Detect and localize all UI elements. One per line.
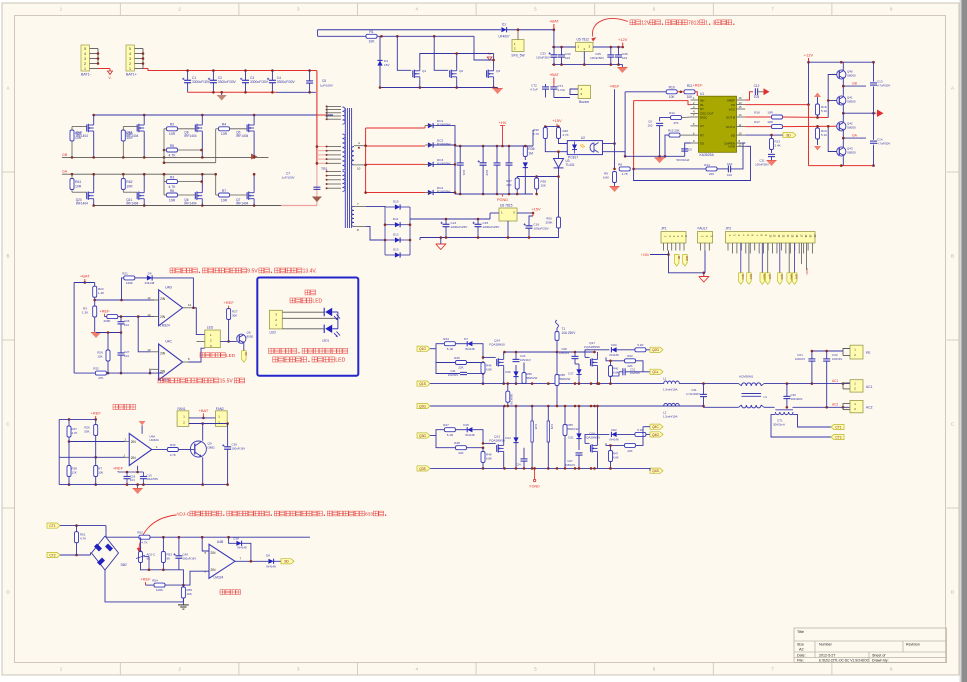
wire GND pin loop	[634, 146, 751, 180]
svg-text:CT: CT	[700, 124, 704, 128]
ic U1 right pin stubs	[737, 99, 746, 101]
svg-text:File:: File:	[797, 659, 804, 663]
wire fan top rail	[59, 418, 95, 420]
svg-text:D16: D16	[505, 370, 511, 374]
svg-text:B: B	[6, 254, 9, 259]
mosfet Q1	[412, 70, 414, 77]
wire top rail into transformer	[317, 114, 327, 116]
wire Q43 emitter to bottom	[842, 156, 844, 165]
svg-text:3: 3	[84, 57, 86, 61]
svg-text:4.7K: 4.7K	[141, 540, 147, 544]
svg-text:102: 102	[727, 173, 732, 177]
svg-text:U2: U2	[581, 136, 585, 140]
svg-text:D11: D11	[393, 217, 399, 221]
pins of BAT1+	[135, 48, 144, 50]
svg-text:R47: R47	[443, 423, 449, 427]
wire Q18 drain	[143, 115, 145, 123]
svg-text:+REF: +REF	[91, 411, 102, 416]
svg-text:FAULT: FAULT	[698, 227, 708, 231]
svg-text:1: 1	[129, 67, 131, 71]
svg-text:12V: 12V	[641, 21, 651, 27]
svg-text:5.1K: 5.1K	[821, 133, 827, 137]
svg-text:6.8K: 6.8K	[486, 368, 492, 372]
svg-text:105/1KV: 105/1KV	[565, 463, 576, 467]
resistor R56 560K2W	[522, 373, 526, 384]
svg-text:560K2W: 560K2W	[560, 377, 571, 381]
svg-text:5.1R: 5.1R	[447, 347, 454, 351]
resistor R62 10R	[121, 179, 125, 190]
svg-text:Q1G: Q1G	[419, 347, 426, 351]
svg-text:10R: 10R	[221, 132, 228, 136]
resistor R53 5K	[161, 552, 165, 563]
tag vtag Q1G	[739, 273, 744, 285]
capacitor C28 1uF/400V	[531, 421, 533, 442]
svg-text:Title: Title	[797, 630, 804, 634]
capacitor C3 3300uF/30V	[242, 79, 249, 81]
svg-text:+BAT: +BAT	[80, 274, 90, 279]
connector PE	[850, 345, 863, 359]
svg-text:IRF1404: IRF1404	[126, 202, 138, 206]
svg-text:IRF1404: IRF1404	[184, 134, 196, 138]
svg-text:FQA28N50: FQA28N50	[584, 345, 600, 349]
svg-text:Q4S: Q4S	[652, 469, 659, 473]
wire U4C output to LED3	[189, 348, 205, 362]
annotation dual color LED	[200, 353, 205, 358]
optocoupler U2 PC817	[567, 141, 602, 155]
svg-text:10: 10	[739, 131, 742, 135]
wires opto transistor side	[603, 143, 615, 145]
wire Q42 collector	[842, 113, 844, 122]
transformer secondary aux winding	[351, 206, 354, 210]
svg-text:2IN: 2IN	[211, 568, 217, 572]
svg-text:2IN: 2IN	[160, 315, 166, 319]
led LED2 symbol	[323, 325, 325, 333]
svg-text:22K: 22K	[458, 451, 463, 455]
resistor R57 560K1W	[506, 391, 510, 402]
connector BAT1-	[81, 45, 90, 71]
fuse T1 10A 250V	[556, 320, 559, 328]
svg-text:R54: R54	[152, 579, 158, 583]
wire GB emitter junction	[842, 79, 844, 96]
svg-text:R52: R52	[137, 531, 143, 535]
capacitor C20 472	[494, 162, 501, 164]
annotation current detect	[220, 590, 225, 595]
svg-text:SY: SY	[700, 107, 704, 111]
svg-text:LED1: LED1	[322, 339, 330, 343]
svg-text:VREF: VREF	[727, 98, 735, 102]
svg-text:14: 14	[188, 303, 192, 307]
svg-text:KA3525A: KA3525A	[700, 153, 715, 157]
svg-text:V-: V-	[488, 52, 491, 56]
svg-text:+REF: +REF	[693, 83, 703, 87]
wires TL431	[558, 152, 560, 159]
capacitor C11 100nF/50V	[768, 153, 775, 155]
wire JP1 +15V	[669, 251, 704, 273]
wire 15V raw bus	[410, 218, 490, 220]
pins of BAT1-	[90, 48, 99, 50]
wire Q5 drain	[253, 115, 255, 123]
svg-text:CX1: CX1	[797, 353, 803, 357]
svg-text:SFS_5W: SFS_5W	[511, 54, 525, 58]
svg-text:3: 3	[713, 21, 716, 27]
wire gate link column4 bottom	[215, 174, 217, 195]
svg-text:4.7uF: 4.7uF	[558, 88, 566, 92]
svg-text:1000uF/25V: 1000uF/25V	[451, 225, 469, 229]
svg-text:100uF/16V: 100uF/16V	[183, 557, 197, 561]
svg-text:10K: 10K	[98, 471, 103, 475]
annotation box note line1	[269, 348, 274, 353]
svg-text:TR1: TR1	[321, 167, 328, 171]
svg-text:U6 7815: U6 7815	[500, 204, 513, 208]
svg-text:1uF/100V: 1uF/100V	[281, 176, 294, 180]
power arrow right of C12	[764, 88, 770, 95]
wire current sense bottom	[141, 569, 179, 571]
wire pin12 input	[95, 299, 154, 301]
svg-text:10R: 10R	[767, 120, 773, 124]
svg-text:+15V: +15V	[641, 253, 650, 257]
svg-text:560K1W: 560K1W	[510, 394, 514, 405]
svg-text:DB2: DB2	[121, 563, 127, 567]
wire R10 R11 reference chain	[625, 91, 667, 93]
resistor R27 30K	[227, 309, 231, 320]
svg-text:+15V: +15V	[552, 118, 562, 123]
wire Q6 drain	[201, 174, 203, 190]
tag Q1G	[417, 346, 430, 351]
wire ground rail under IC left	[625, 155, 685, 157]
wire GB gate bus	[62, 156, 269, 158]
connector AC1	[850, 380, 863, 392]
mosfet Q21 IRF1404	[136, 192, 138, 199]
wire comp top node	[74, 282, 95, 284]
resistor R61 10R	[70, 179, 74, 190]
svg-text:V-: V-	[108, 76, 111, 80]
svg-text:IRF1404: IRF1404	[236, 134, 248, 138]
tag vtag Q2S	[765, 273, 770, 285]
tag Q1S	[417, 381, 430, 386]
wire opamp fan inputs	[69, 441, 125, 443]
transistor Q43 S8550	[837, 147, 846, 156]
svg-text:6.8K: 6.8K	[613, 456, 619, 460]
feedback diode D18 IN4148	[236, 541, 241, 546]
svg-text:Q4S: Q4S	[795, 274, 799, 279]
transistor Q8 8050	[237, 334, 246, 343]
svg-text:AC2: AC2	[832, 403, 838, 407]
shunt regulator U3 TL431	[554, 159, 564, 168]
svg-text:RT: RT	[700, 133, 704, 137]
svg-text:R60: R60	[126, 132, 132, 136]
svg-text:13.4V.: 13.4V.	[303, 269, 317, 275]
capacitor C5 1uF/100V	[306, 80, 313, 82]
wire comp network	[634, 168, 706, 170]
wire cap bottom rail 12V	[552, 64, 623, 66]
red callout arrow to pot	[139, 515, 176, 549]
wire Q41 collector to mid rail	[842, 105, 844, 113]
svg-text:104/400V: 104/400V	[791, 397, 803, 401]
svg-text:S8050: S8050	[847, 74, 856, 78]
wire Q17 gate	[585, 356, 590, 358]
svg-text:2IN: 2IN	[131, 456, 137, 460]
svg-text:Date:: Date:	[797, 654, 806, 658]
resistor R21 120K	[124, 276, 135, 280]
resistor R46 6.8K	[481, 363, 485, 374]
svg-text:Q2G: Q2G	[419, 404, 426, 408]
svg-text:Q1G: Q1G	[741, 274, 745, 279]
svg-text:CT2: CT2	[835, 435, 841, 439]
ground arrow under R19	[814, 146, 821, 151]
svg-text:S8550: S8550	[847, 100, 856, 104]
resistor R25 200K	[107, 315, 118, 319]
svg-text:R1: R1	[369, 30, 373, 34]
svg-text:FAN1: FAN1	[178, 407, 186, 411]
svg-text:Number: Number	[819, 643, 833, 647]
capacitor C34 104	[558, 54, 565, 56]
blue annotation box	[257, 278, 358, 376]
svg-text:105/1KV: 105/1KV	[520, 358, 531, 362]
svg-text:Drawn By:: Drawn By:	[872, 659, 889, 663]
tag Q2G right	[650, 347, 663, 352]
svg-text:IN4148: IN4148	[237, 546, 247, 550]
wire filter node A	[704, 383, 739, 385]
ground symbol aux open	[436, 244, 446, 250]
svg-text:7812: 7812	[688, 21, 699, 27]
svg-text:2IN: 2IN	[211, 551, 217, 555]
svg-text:15.5V: 15.5V	[220, 379, 234, 385]
capacitor C23 400V	[506, 162, 513, 164]
svg-text:30A/2mA: 30A/2mA	[773, 423, 785, 427]
svg-text:5: 5	[129, 47, 131, 51]
tag Q4B right	[650, 468, 663, 473]
capacitor CT2b 4.7uF	[550, 86, 557, 88]
resistor R17 10R	[772, 125, 783, 129]
wire SD net	[745, 134, 783, 136]
wire Q19 source	[93, 134, 95, 158]
capacitor C9 50V/22uF	[681, 148, 688, 150]
resistor R38 10K	[535, 178, 539, 189]
svg-text:100nF/50V: 100nF/50V	[590, 56, 604, 60]
svg-text:10K: 10K	[541, 184, 546, 188]
mosfet Q3	[486, 70, 488, 77]
svg-text:3300uF/30V: 3300uF/30V	[277, 80, 296, 84]
svg-text:D1: D1	[502, 23, 506, 27]
svg-text:C5: C5	[322, 79, 326, 83]
wire U4D output to LED1	[193, 308, 204, 335]
svg-text:Q2G: Q2G	[652, 348, 659, 352]
wire driver upper base bus	[828, 75, 837, 118]
resistor R10 10K	[666, 90, 677, 94]
svg-text:D9: D9	[148, 271, 152, 275]
svg-text:R61: R61	[75, 180, 81, 184]
svg-text:2IN: 2IN	[131, 440, 137, 444]
tag Q4G right	[650, 432, 663, 437]
svg-text:104: 104	[124, 323, 129, 327]
svg-text:B: B	[951, 254, 954, 259]
wire driver bottom rail red	[809, 165, 874, 167]
svg-text:120K: 120K	[126, 281, 133, 285]
wire CT sense to tags	[793, 415, 832, 427]
wire bridge left	[91, 553, 92, 555]
svg-text:R14: R14	[704, 163, 710, 167]
power arrow mid rail	[877, 110, 884, 118]
title block	[794, 628, 947, 663]
svg-text:10R: 10R	[169, 198, 176, 202]
resistor R2 10R	[167, 127, 178, 131]
wire IN- red	[634, 101, 691, 105]
svg-text:Size: Size	[797, 643, 804, 647]
svg-text:1.3K: 1.3K	[82, 311, 88, 315]
tag Q4C right	[650, 424, 663, 429]
svg-text:Q2S: Q2S	[768, 274, 772, 279]
svg-text:1.5mH/10A: 1.5mH/10A	[663, 388, 678, 392]
resistor R55 10K	[181, 587, 185, 598]
capacitor C40 100uF/16V	[175, 555, 182, 557]
svg-text:IRF1404: IRF1404	[76, 202, 88, 206]
transformer TR1 primary pins bottom group	[327, 170, 341, 172]
resistor R28 12K	[67, 466, 71, 477]
svg-text:GB: GB	[62, 153, 68, 157]
wire Q9 emitter	[202, 457, 204, 484]
tag CT1 out	[831, 424, 844, 429]
wire Q9 collector	[202, 424, 204, 441]
wire driver lower base bus	[828, 126, 837, 151]
opamp U4C LM324	[159, 344, 183, 380]
regulator U5 7812	[576, 42, 593, 51]
svg-text:LED: LED	[335, 358, 345, 364]
diode D22 IN4148	[611, 432, 616, 437]
capacitor CX1 103/1KV	[808, 358, 815, 360]
wire PE line	[812, 350, 843, 352]
svg-text:U5 7812: U5 7812	[577, 38, 590, 42]
ground symbol IC left	[655, 158, 665, 164]
svg-text:PGND: PGND	[497, 198, 508, 202]
resistor R48 22K	[456, 446, 467, 450]
resistor R54 100K	[154, 583, 165, 587]
capacitor C24 105/1KV	[521, 458, 528, 460]
transistor Q40 S8050	[837, 70, 846, 79]
svg-text:VCC: VCC	[729, 107, 736, 111]
svg-text:4.7K: 4.7K	[563, 133, 569, 137]
svg-text:100nF/50V: 100nF/50V	[755, 163, 769, 167]
window shadow right edge	[962, 0, 967, 682]
svg-text:D15: D15	[463, 423, 469, 427]
svg-text:12: 12	[739, 143, 742, 147]
wire BAT1- to V-	[98, 68, 110, 70]
wire opamp fan bottom pin	[137, 466, 139, 471]
svg-text:10R: 10R	[75, 184, 82, 188]
wire gate link column4	[215, 129, 217, 163]
resistor R59 10R	[70, 130, 74, 141]
wire to PC817 branch	[532, 130, 534, 146]
svg-text:10: 10	[357, 167, 361, 171]
svg-text:+HV: +HV	[499, 120, 507, 125]
wire Q19 drain	[93, 115, 95, 123]
svg-text:R8: R8	[618, 162, 622, 166]
svg-text:+15V: +15V	[531, 207, 541, 212]
zener D14 15V	[513, 437, 518, 442]
svg-text:LM324: LM324	[214, 576, 224, 580]
svg-text:104: 104	[130, 478, 135, 482]
svg-text:4.7K: 4.7K	[170, 453, 176, 457]
svg-text:100uF/16V: 100uF/16V	[232, 447, 246, 451]
resistor R49r 5.1R	[635, 432, 646, 436]
opamp U4D LM324	[159, 290, 183, 326]
svg-text:C19: C19	[147, 474, 153, 478]
svg-text:C21: C21	[462, 170, 466, 176]
svg-text:1.4K: 1.4K	[98, 291, 104, 295]
capacitor C22 330uF/450V	[480, 162, 487, 164]
svg-text:C27: C27	[567, 459, 573, 463]
svg-text:D7: D7	[464, 337, 468, 341]
resistor R19 5.1K	[816, 128, 820, 139]
mosfet Q5 IRF1404	[246, 125, 248, 132]
svg-text:SD: SD	[244, 352, 248, 356]
capacitor CX2 103/1KV	[823, 358, 830, 360]
svg-text:D21: D21	[568, 436, 574, 440]
inductor L1 1.5mH/10A	[664, 381, 668, 384]
red callout arrow to 7812	[592, 19, 628, 37]
svg-text:OUT A: OUT A	[726, 125, 735, 129]
svg-text:D10: D10	[393, 200, 399, 204]
transformer TR1 primary pins center group	[327, 146, 341, 148]
wire driver mid rail	[843, 112, 876, 114]
svg-text:1: 1	[84, 67, 86, 71]
ground symbol fan rc	[137, 485, 139, 488]
capacitor C31r 102/50V	[622, 368, 624, 375]
tag vtag Q4G	[787, 273, 792, 285]
svg-text:R44: R44	[443, 337, 449, 341]
svg-text:D13: D13	[393, 248, 399, 252]
led LED1 symbol	[323, 308, 325, 316]
capacitor C35 100nF/50V	[607, 54, 614, 56]
wire comp bottom rail	[74, 372, 163, 374]
svg-text:C31: C31	[630, 368, 636, 372]
svg-text:Q4C: Q4C	[652, 425, 659, 429]
svg-text:5K: 5K	[147, 557, 151, 561]
wire Q20 source	[93, 201, 95, 205]
wire Q8 drain	[201, 115, 203, 123]
resistor R4 10R	[219, 127, 230, 131]
capacitor C14 4.7uF/50V	[870, 140, 877, 142]
svg-text:D17: D17	[568, 372, 574, 376]
mosfet Q18 IRF1404	[136, 125, 138, 132]
svg-text:833: 833	[365, 512, 373, 518]
svg-text:10K: 10K	[669, 95, 676, 99]
svg-text:10R: 10R	[126, 184, 133, 188]
svg-text:R6: R6	[170, 189, 174, 193]
svg-text:C28: C28	[534, 424, 538, 430]
svg-text:1M: 1M	[528, 151, 533, 155]
resistor R36 1M	[523, 146, 527, 157]
diode DC4 BYW99W	[428, 190, 433, 195]
svg-text:TL431: TL431	[566, 163, 575, 167]
svg-text:30K: 30K	[232, 314, 237, 318]
resistor R44 5.1R	[444, 342, 455, 346]
wire top drain rail	[94, 114, 333, 116]
svg-text:C10: C10	[727, 162, 733, 166]
ground symbol under C11	[767, 161, 777, 167]
svg-text:R3: R3	[170, 175, 174, 179]
resistor R50 200K	[557, 217, 561, 228]
resistor R14 22K	[706, 167, 717, 171]
capacitor C41 103/50V	[460, 371, 467, 373]
diode DC2 BYW99W	[428, 142, 433, 147]
resistor R26 10K	[106, 350, 110, 361]
svg-text:104: 104	[124, 354, 129, 358]
annotation box note line2	[273, 357, 278, 362]
resistor R6 10R	[167, 193, 178, 197]
svg-text:S8550: S8550	[847, 151, 856, 155]
svg-text:D20: D20	[611, 343, 617, 347]
power arrow above R18	[814, 93, 821, 98]
